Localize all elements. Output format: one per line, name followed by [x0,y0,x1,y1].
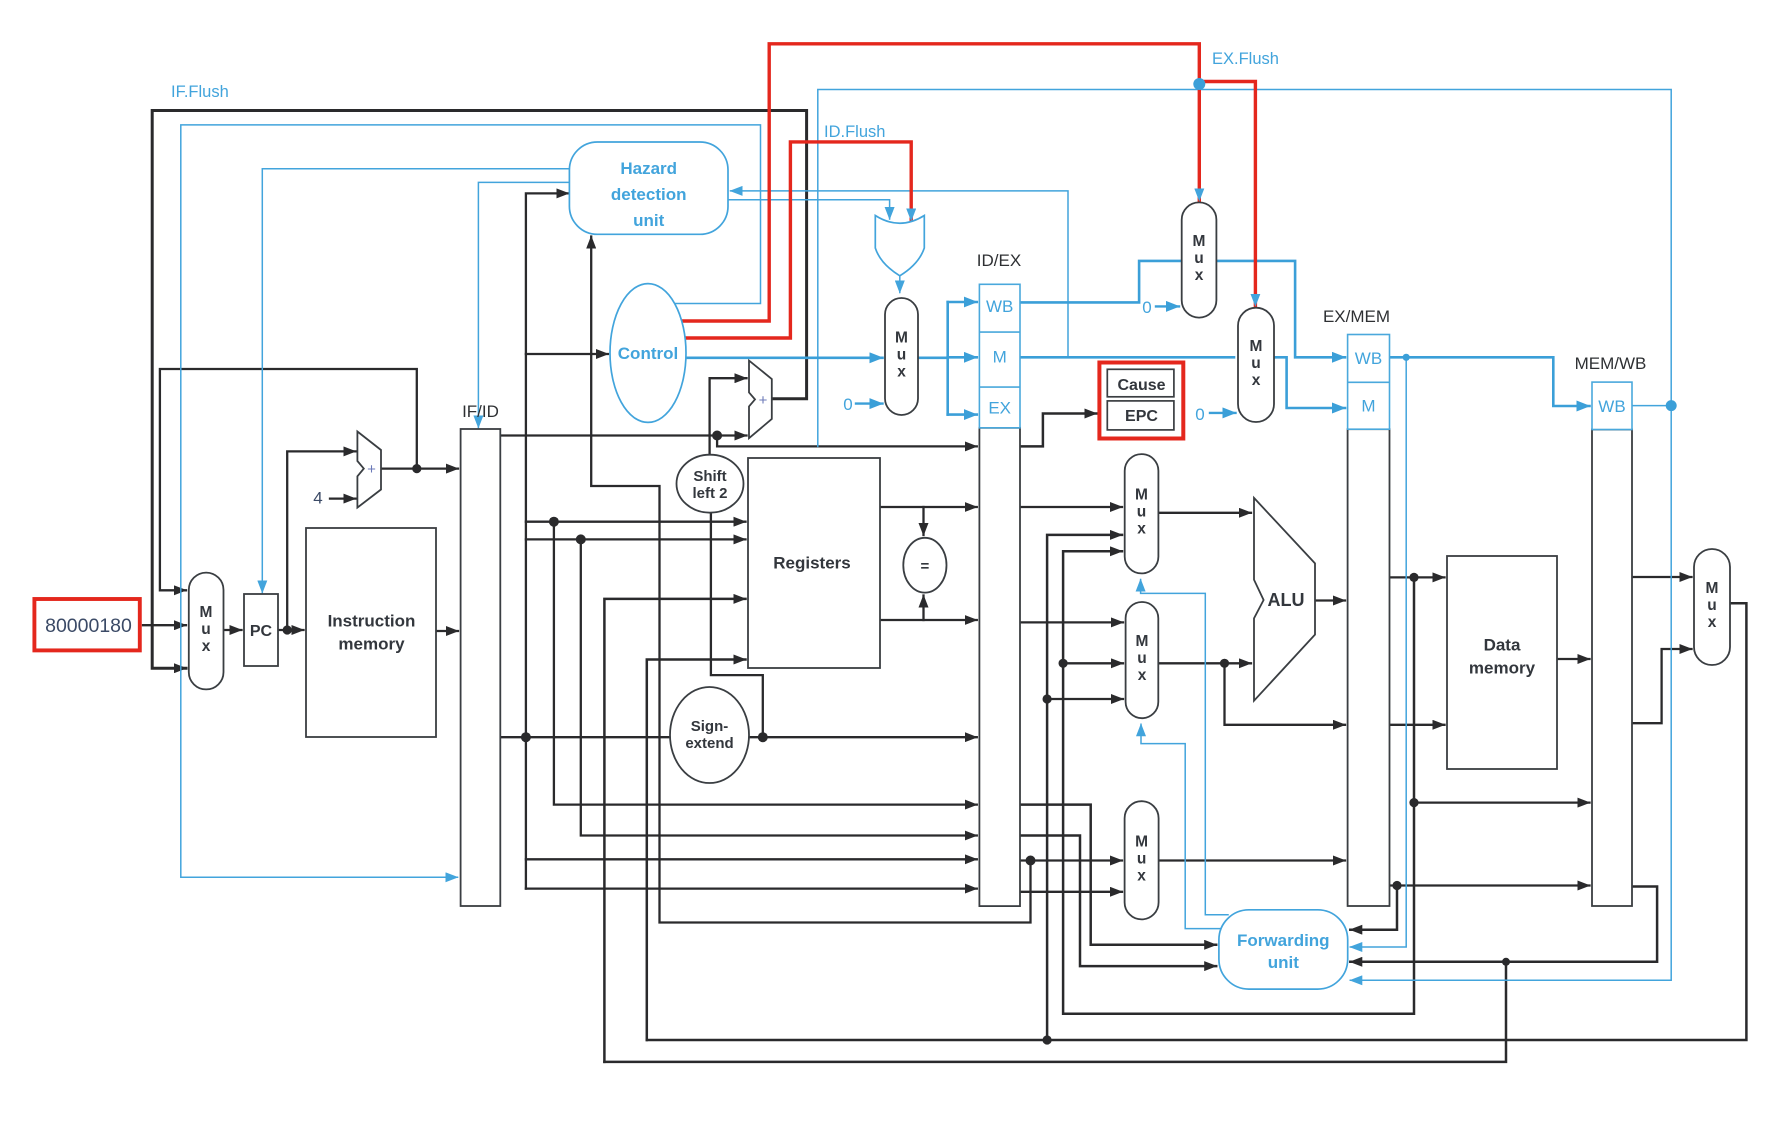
svg-text:Cause: Cause [1117,377,1165,394]
svg-text:ALU: ALU [1268,590,1305,610]
wire shift-left-2 output to branch adder [710,378,747,455]
node junction sign-extend output [758,732,768,742]
wire branch of PC output to instruction memory and up to PC+4 adder (2) [287,451,355,630]
wire ID/EX.M bundle through M zero mux to EX/MEM.M [1020,356,1234,359]
node junction Rt read-register line [576,534,586,544]
cause and EPC registers [1099,363,1183,439]
wire branch of EX/MEM ALU result forwarding path (2) [1063,662,1123,664]
svg-text:0: 0 [843,395,852,414]
wire 0 constant into WB flush mux [1156,305,1179,307]
wire registers read data 1 to ID/EX and comparator [879,506,977,508]
svg-text:EX.Flush: EX.Flush [1212,50,1279,68]
wire branch of control zero mux output trunk to ID/EX WB M EX (5) [948,413,977,416]
register MEM/WB WB section [1592,382,1632,429]
node junction PC output [283,625,292,634]
svg-text:IF.Flush: IF.Flush [171,83,229,101]
wire branch of control zero mux output trunk to ID/EX WB M EX (4) [948,356,977,359]
data memory [1447,556,1557,769]
mux M flush [1238,308,1274,422]
wire IF.Flush from control to IF/ID flush port [181,125,761,877]
wire ID/EX read data 1 to ALU mux A [1020,506,1122,508]
svg-text:ID.Flush: ID.Flush [824,123,885,141]
wire branch of IF/ID PC+4 to branch adder and to ID/EX (2) [717,436,977,447]
svg-text:Registers: Registers [773,554,850,573]
svg-text:80000180: 80000180 [45,615,132,637]
mux write back [1694,549,1730,665]
wire branch of registers read data 2 to ID/EX and comparator (2) [922,596,924,621]
wire WB mux output loop back to register write data [647,603,1747,1040]
wire branch of control zero mux output trunk to ID/EX WB M EX (3) [948,301,977,304]
wire write data into registers [647,660,746,1041]
mux PC source [189,573,224,690]
sign-extend [670,687,749,783]
node junction instruction bus at sign-extend line [521,732,531,742]
wire write register number into registers [604,599,745,1062]
wire MEM/WB.RegisterRd to forwarding unit and register write port [1350,887,1657,962]
svg-text:M: M [1361,397,1375,416]
svg-text:EPC: EPC [1125,408,1158,425]
wire branch of mux B output to ALU input 2 and EX/MEM write data (2) [1225,663,1346,725]
wire 0 constant into M flush mux [1210,412,1236,414]
wire branch of instruction vertical trunk with taps to hazard, control, read regs (2) [526,353,608,355]
control unit [610,284,686,423]
svg-text:WB: WB [1355,349,1382,368]
wire MEM/WB ALU result to WB mux [1632,649,1692,723]
wire ID/EX.RegisterRs to forwarding unit [1020,805,1216,945]
node junction EX/MEM forward line at mux B [1059,659,1068,668]
wire Rs field drop to ID/EX [554,522,977,805]
wire IF/IDWrite from hazard unit to IF/ID [478,182,569,427]
svg-text:PC: PC [250,623,273,640]
svg-text:=: = [921,558,930,575]
svg-text:MEM/WB: MEM/WB [1575,354,1647,373]
node junction EX/MEM WB output [1403,354,1410,361]
exception address constant 80000180 [34,599,139,650]
wire destination mux output to EX/MEM [1159,859,1345,861]
wire branch of instruction vertical trunk with taps to hazard, control, read regs (4) [526,538,746,540]
junction dots group [283,431,1510,1045]
mux destination register [1125,801,1159,919]
or gate [875,216,924,276]
wire PC+4 to PC mux top input [160,369,417,590]
wire ID/EX.RegisterRt to destination mux input 1 [1020,859,1122,861]
svg-text:Sign-extend: Sign-extend [685,718,733,752]
alu [1254,498,1315,701]
wire registers read data 2 to ID/EX and comparator [879,619,977,621]
wire ID/EX.WB bundle through EX flush mux to EX/MEM.WB [1020,261,1345,357]
node junction EX.Flush split [1193,78,1205,90]
wire ID/EX to EPC [1020,414,1097,447]
wire EX/MEM register Rd to MEM/WB and forwarding unit [1390,884,1590,886]
wire IF/ID PC+4 to branch adder and to ID/EX [500,434,746,436]
wire branch of instruction vertical trunk with taps to hazard, control, read regs (6) [526,887,977,889]
wire 80000180 to PC mux middle input [143,624,186,626]
register ID/EX WB M EX section [979,284,1020,428]
wire branch-target outer loop from branch adder to PC mux bottom input [152,111,806,669]
svg-text:4: 4 [313,489,322,508]
wire MEM/WB forwarding path [1047,535,1122,1040]
wire EX/MEM.WB to MEM/WB.WB [1390,357,1590,406]
svg-text:WB: WB [1598,397,1625,416]
wire branch of ID/EX.M bundle through M zero mux to EX/MEM.M (2) [1274,357,1345,408]
mux control zero [885,298,918,415]
wire MEM/WB.WB output to register write line [1632,405,1671,407]
wire mux A output to ALU input 1 [1158,512,1251,514]
wire ID.Flush red highlight from control to OR gate [683,142,911,338]
wire PC+4 adder output to IF/ID [381,467,458,469]
svg-text:EX: EX [988,399,1011,418]
wire control zero mux output trunk to ID/EX WB M EX [918,356,948,359]
svg-text:+: + [759,392,768,409]
register EX/MEM black section [1348,429,1390,906]
wire instruction bus IF/ID to sign-extend [500,736,671,738]
wire mux B output to ALU input 2 and EX/MEM write data [1158,662,1251,664]
wire ID/EX read data 2 to ALU mux B [1020,621,1123,623]
svg-text:0: 0 [1195,405,1204,424]
wire branch of control zero mux output trunk to ID/EX WB M EX (2) [946,302,949,415]
node junction IF/ID PC+4 line [712,431,722,441]
wire PCWrite from hazard unit to PC [262,169,569,593]
wire ID/EX.RegisterRd to destination mux input 2 [1020,891,1122,893]
wire hazard unit stall signal to OR gate left input [728,200,890,219]
wire branch of MEM/WB.RegisterRd to forwarding unit and register write port (2) [604,962,1506,1062]
register PC [244,594,278,666]
svg-text:+: + [367,461,376,478]
shift left 2 [677,455,744,513]
wire EX/MEM RegWrite to forwarding unit [1350,357,1406,947]
register IF/ID [461,429,501,906]
wire branch of instruction vertical trunk with taps to hazard, control, read regs (5) [526,858,977,860]
register EX/MEM WB M section [1348,335,1390,430]
mux ALU input A [1125,454,1159,573]
node junction EX/MEM ALU result [1409,573,1418,582]
wire branch of sign-extend output to ID/EX and up to shift-left-2 (2) [711,513,763,738]
wire EX/MEM write data to data memory [1390,724,1445,726]
node junction MEM/WB WB output [1666,400,1677,411]
node junction Rs read-register line [549,517,559,527]
wire sign-extend output to ID/EX and up to shift-left-2 [750,736,977,738]
wire EX.Flush red highlight from control to WB flush mux [680,44,1199,321]
svg-text:WB: WB [986,297,1013,316]
wire EX.Flush red branch to M flush mux [1199,82,1255,306]
node junction EX/MEM RegisterRd [1392,881,1401,890]
svg-text:EX/MEM: EX/MEM [1323,307,1390,326]
wire ID/EX.RegisterRt to hazard detection unit [591,237,1030,923]
comparator equals [903,538,946,593]
wire EX/MEM ALU result forwarding path [1063,551,1414,1013]
wire forwarding unit select B to ALU mux B [1141,724,1222,928]
node junction MEM/WB forward line at mux B [1043,694,1052,703]
registers [748,458,880,668]
svg-text:M: M [993,348,1007,367]
adder PC+4 [357,432,381,508]
wire OR gate output to control zero mux [899,277,901,293]
wire 0 constant into control zero mux [856,402,883,404]
node junction ALU operand B [1220,659,1229,668]
mux ALU input B [1126,602,1159,718]
wire forwarding unit select A to ALU mux A [1141,580,1228,915]
node junction PC+4 adder output [412,464,421,473]
wire branch of EX/MEM register Rd to MEM/WB and forwarding unit (2) [1350,886,1397,930]
wire constant 4 into adder [330,497,355,499]
wire ALU output to EX/MEM [1315,599,1345,601]
svg-text:Shiftleft 2: Shiftleft 2 [692,468,727,502]
svg-text:0: 0 [1142,298,1151,317]
node junction ALU result to MEM/WB [1409,798,1418,807]
wire branch of MEM/WB forwarding path (2) [1047,698,1123,700]
wire instruction vertical trunk with taps to hazard, control, read regs [526,193,569,888]
register MEM/WB black section [1592,430,1632,907]
wire branch of registers read data 1 to ID/EX and comparator (2) [922,507,924,535]
forwarding unit [1219,910,1348,989]
wire MEM/WB read data to WB mux [1632,576,1692,578]
wire PC mux output to PC [224,629,242,631]
hazard detection unit [569,142,728,234]
svg-text:Control: Control [618,344,678,363]
wire branch of instruction vertical trunk with taps to hazard, control, read regs (3) [526,521,746,523]
mux WB flush [1182,202,1217,317]
instruction memory [306,528,436,737]
svg-text:IF/ID: IF/ID [462,402,499,421]
adder branch target [749,361,772,439]
wire ID/EX.RegisterRt to forwarding unit [1020,836,1216,967]
wire control output to control zero mux [686,356,883,359]
node junction MEM/WB RegisterRd to write port [1502,958,1510,966]
wire EX/MEM ALU result to MEM/WB [1414,801,1590,803]
wire EX/MEM address to data memory [1390,576,1445,578]
wire EX.Flush line across top and down right side to forwarding unit [818,90,1671,981]
wire instruction memory output to IF/ID [436,630,458,632]
register ID/EX black section [979,428,1020,906]
wire Rt field drop to ID/EX [581,539,977,835]
node junction ID/EX RegisterRt output [1026,856,1036,866]
svg-text:ID/EX: ID/EX [977,251,1021,270]
wire data memory read data to MEM/WB [1557,658,1590,660]
wire ID/EX.MemRead to hazard detection unit [731,191,1069,356]
node junction WB mux loop to forward line [1043,1035,1052,1044]
wire PC output to instruction memory and up to PC+4 adder [278,629,304,631]
